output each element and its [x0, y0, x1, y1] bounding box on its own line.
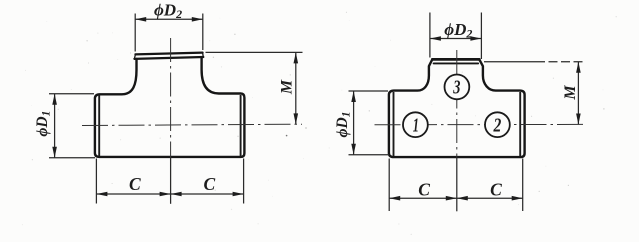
- svg-text:C: C: [129, 174, 141, 194]
- dimension phi-D1 (left view): extension lines: [49, 94, 95, 158]
- svg-text:C: C: [418, 180, 430, 200]
- dimension C-C (left view): arrowheads: [96, 192, 243, 197]
- svg-text:C: C: [204, 174, 216, 194]
- svg-text:2: 2: [493, 113, 502, 135]
- dimension phi-D2 (left view): extension lines: [135, 14, 203, 52]
- right view: tee body outline: [389, 59, 525, 157]
- dimension M (left view): arrowheads: [294, 52, 299, 124]
- right view: vertical centerline: [456, 50, 458, 157]
- svg-text:3: 3: [452, 75, 460, 98]
- left view: weld bead line on left pipe end: [98, 94, 100, 156]
- dimension C-C (right view): arrowheads: [389, 196, 523, 201]
- port circle 2: [485, 112, 510, 137]
- dimension M (right view): extension line and dimension line: [484, 62, 583, 125]
- left view: tee body outline: [95, 53, 245, 157]
- dimension phi-D2 (left view): arrowheads: [135, 17, 203, 22]
- left view: vertical centerline: [170, 38, 172, 157]
- right view: horizontal centerline: [375, 123, 585, 125]
- scanner speck near M arrow: [286, 135, 288, 137]
- svg-text:C: C: [490, 180, 502, 200]
- svg-text:M: M: [562, 85, 579, 101]
- dimension phi-D2 (right view): arrowheads: [430, 36, 482, 41]
- svg-text:1: 1: [413, 113, 419, 136]
- dimension C-C (left view): extension lines: [96, 157, 243, 204]
- right view: weld bead line on right pipe end: [519, 92, 521, 156]
- left view: horizontal centerline: [82, 124, 302, 125]
- dimension phi-D2 (right view): extension lines: [430, 13, 482, 60]
- dimension M (right view): arrowheads: [576, 62, 581, 125]
- dimension M (left view): extension line and dimension line: [206, 52, 303, 124]
- dimension C-C (right view): extension lines: [389, 157, 523, 211]
- svg-text:M: M: [279, 79, 296, 95]
- dimension phi-D1 (left view): arrowheads: [52, 94, 57, 158]
- port circle 3: [445, 75, 470, 100]
- dimension phi-D1 (right view): extension lines: [349, 91, 390, 155]
- left view: weld bead line on right pipe end: [240, 95, 242, 156]
- right view: weld bead line on left pipe end: [393, 92, 395, 156]
- scanner speck lower left: [305, 127, 306, 128]
- dimension phi-D1 (right view): arrowheads: [351, 91, 356, 155]
- port circle 1: [403, 112, 428, 137]
